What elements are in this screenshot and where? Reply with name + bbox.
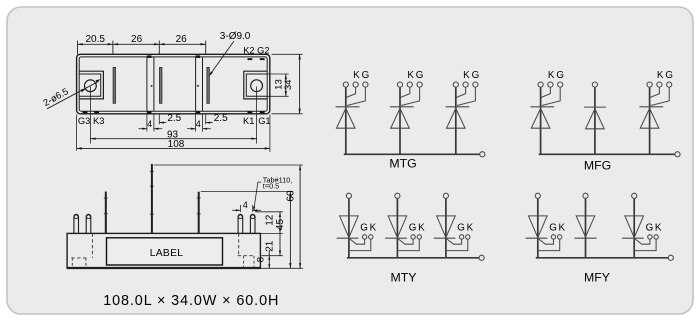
section divider pair 1	[146, 57, 148, 111]
svg-text:G: G	[646, 223, 654, 234]
svg-text:G: G	[665, 70, 673, 81]
MTG anode terminal	[480, 152, 485, 157]
thyristor MTG-2	[399, 87, 401, 154]
svg-text:108.0L × 34.0W × 60.0H: 108.0L × 34.0W × 60.0H	[103, 293, 279, 309]
terminal pin 3 (side view)	[238, 214, 243, 233]
svg-text:MFY: MFY	[584, 271, 610, 285]
MFG anode terminal	[675, 152, 680, 157]
hidden lines right (dashed)	[238, 233, 240, 255]
dimension 4 (divider pair 2)	[195, 115, 197, 132]
dimension 45	[289, 191, 291, 268]
dimension 13	[267, 73, 288, 75]
svg-text:8: 8	[256, 257, 267, 262]
svg-text:K3: K3	[93, 116, 104, 126]
MTY-1 anode terminal circle	[346, 193, 351, 198]
thyristor MFG-1	[540, 87, 542, 154]
extension lines (side view right)	[154, 164, 303, 166]
MTY common cathode bus wire	[347, 257, 479, 259]
MTY-3 gate terminal lead	[447, 239, 462, 244]
MFG-1 gate terminal lead	[542, 87, 560, 105]
MTG-2 terminal circles	[397, 82, 402, 87]
MTG common anode bus wire	[344, 153, 480, 155]
thyristor MTY-1	[348, 198, 350, 257]
svg-text:MTY: MTY	[391, 270, 417, 284]
svg-text:2.5: 2.5	[167, 113, 181, 124]
MTG-2 gate terminal lead	[401, 87, 419, 105]
svg-text:108: 108	[168, 139, 185, 150]
dimension 21	[279, 233, 281, 255]
terminal pin 4 (side view)	[250, 214, 255, 233]
svg-text:K: K	[548, 70, 555, 81]
MTY-2 anode terminal circle	[395, 193, 400, 198]
svg-text:26: 26	[131, 34, 143, 45]
MFY-1 cathode terminal lead	[539, 239, 560, 250]
svg-text:21: 21	[265, 240, 276, 252]
MTY-3 G K terminal circles	[459, 235, 463, 239]
dimension 12	[279, 212, 281, 234]
MFG-1 terminal circles	[538, 82, 543, 87]
svg-text:20.5: 20.5	[85, 34, 105, 45]
svg-text:G: G	[409, 223, 417, 234]
MTG-1 terminal circles	[343, 82, 348, 87]
terminal pin 1 (side view)	[74, 214, 79, 233]
diode MFG-2	[594, 87, 596, 154]
MFG common anode bus wire	[539, 153, 675, 155]
svg-text:MTG: MTG	[389, 156, 416, 170]
dimension 60	[299, 165, 301, 268]
electrode slot 1	[113, 67, 115, 103]
MFY-1 anode terminal circle	[535, 193, 540, 198]
left mounting hole	[85, 80, 97, 92]
svg-text:3-Ø9.0: 3-Ø9.0	[220, 31, 251, 42]
dimension 2.5 (second)	[205, 114, 207, 125]
svg-text:K2 G2: K2 G2	[243, 45, 269, 55]
MTY-1 gate terminal lead	[350, 239, 365, 244]
MTG-3 gate terminal lead	[457, 87, 475, 105]
MFY common cathode bus wire	[536, 257, 668, 259]
MFG-2 terminal circle	[592, 82, 597, 87]
MTG-1 cathode terminal lead	[347, 87, 356, 97]
right mounting hole	[251, 80, 263, 92]
electrode slot 2	[160, 67, 162, 103]
module side view body	[67, 233, 260, 268]
MTY-2 cathode terminal lead	[398, 239, 419, 250]
MTY-3 anode terminal circle	[443, 193, 448, 198]
svg-text:K1: K1	[243, 116, 254, 126]
svg-text:K: K	[370, 223, 377, 234]
svg-text:60: 60	[285, 190, 296, 202]
section divider pair 2	[195, 57, 197, 111]
terminal pin 2 (side view)	[86, 214, 91, 233]
MTG-1 gate terminal lead	[347, 87, 365, 105]
svg-text:34: 34	[283, 79, 294, 90]
MFG-3 gate terminal lead	[651, 87, 669, 105]
MFY-1 G K terminal circles	[551, 235, 555, 239]
MFY-3 G K terminal circles	[648, 235, 652, 239]
svg-text:K: K	[657, 70, 664, 81]
left mounting pocket	[79, 71, 103, 99]
module top view inner rim	[79, 57, 267, 111]
right mounting pocket	[244, 71, 267, 99]
svg-text:K: K	[655, 223, 662, 234]
hidden lines left (dashed)	[91, 233, 93, 258]
diode MFY-2	[585, 198, 587, 257]
svg-text:K: K	[463, 70, 470, 81]
svg-text:G: G	[362, 70, 370, 81]
tab pin center	[151, 164, 153, 234]
svg-text:2.5: 2.5	[214, 113, 228, 124]
terminal pads K1 G1 (bottom right)	[248, 111, 253, 113]
dimension 34	[272, 53, 303, 55]
svg-text:4: 4	[196, 119, 201, 129]
svg-text:t=0.5: t=0.5	[263, 182, 279, 191]
thyristor MTG-3	[455, 87, 457, 154]
svg-text:LABEL: LABEL	[150, 248, 184, 259]
MTG-2 cathode terminal lead	[401, 87, 410, 97]
svg-text:G: G	[556, 70, 564, 81]
MTY-1 cathode terminal lead	[350, 239, 371, 250]
svg-text:G3: G3	[78, 116, 90, 126]
dimension 93	[89, 87, 91, 144]
electrode slot 3	[207, 67, 209, 103]
MFY-2 terminal circle	[583, 193, 588, 198]
tab pin right	[198, 192, 200, 234]
svg-text:4: 4	[147, 119, 152, 129]
svg-text:G1: G1	[258, 116, 270, 126]
MFY cathode terminal	[668, 255, 673, 260]
dimension 2.5 (first)	[158, 114, 160, 125]
MFY-3 anode terminal circle	[632, 193, 637, 198]
dimension 8	[268, 250, 270, 268]
MTY cathode terminal	[479, 255, 484, 260]
svg-text:45: 45	[275, 219, 286, 231]
LABEL box	[107, 238, 223, 265]
MTY-2 G K terminal circles	[411, 235, 415, 239]
MTG-3 terminal circles	[453, 82, 458, 87]
svg-text:26: 26	[176, 34, 188, 45]
dimension 108	[76, 115, 78, 151]
MFG-1 cathode terminal lead	[541, 87, 550, 97]
MTY-1 G K terminal circles	[362, 235, 366, 239]
svg-text:K: K	[353, 70, 360, 81]
MFG-3 terminal circles	[647, 82, 652, 87]
thyristor MFY-1	[537, 198, 539, 257]
dimension 4 (divider pair 1)	[146, 115, 148, 132]
module top view outline	[77, 54, 270, 114]
svg-text:G: G	[549, 223, 557, 234]
dimension 20.5/26/26 line	[78, 43, 206, 45]
svg-text:G: G	[360, 223, 368, 234]
thyristor MFG-3	[649, 87, 651, 154]
terminal pads K2 G2 (top right)	[248, 58, 253, 60]
terminal pads G3 K3 (bottom left)	[83, 111, 88, 113]
MFY-3 cathode terminal lead	[635, 239, 656, 250]
svg-text:G: G	[457, 223, 465, 234]
svg-text:4: 4	[243, 200, 248, 210]
thyristor MFY-3	[633, 198, 635, 257]
svg-text:K: K	[467, 223, 474, 234]
MFY-1 gate terminal lead	[539, 239, 554, 244]
thyristor MTY-2	[396, 198, 398, 257]
MFY-3 gate terminal lead	[635, 239, 650, 244]
svg-text:G: G	[416, 70, 424, 81]
thyristor MTY-3	[445, 198, 447, 257]
svg-text:K: K	[418, 223, 425, 234]
tab pin left	[105, 192, 107, 234]
MTY-3 cathode terminal lead	[447, 239, 468, 250]
dimension 4 (side view pins)	[239, 205, 241, 212]
svg-text:K: K	[407, 70, 414, 81]
MFG-3 cathode terminal lead	[650, 87, 659, 97]
svg-text:MFG: MFG	[584, 158, 611, 172]
pin mark dots	[151, 85, 153, 87]
svg-text:K: K	[559, 223, 566, 234]
thyristor MTG-1	[345, 87, 347, 154]
MTY-2 gate terminal lead	[398, 239, 413, 244]
svg-text:G: G	[472, 70, 480, 81]
svg-text:12: 12	[265, 214, 276, 226]
MTG-3 cathode terminal lead	[457, 87, 466, 97]
